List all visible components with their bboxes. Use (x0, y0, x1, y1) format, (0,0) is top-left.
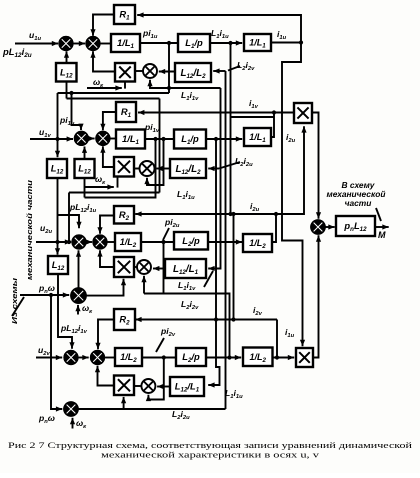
wire bus into L12a row2 (55, 93, 60, 157)
block 1/L2 right (row4) (243, 348, 273, 367)
wire L12b up to A2 (82, 147, 87, 160)
wire L12b down (84, 178, 86, 198)
wire i2u to R2 and XR1 (135, 126, 306, 214)
wire L1/p to 1/L1 right row2 (206, 136, 242, 141)
wire M2 to X2 (134, 168, 140, 170)
wire M1 to X1 (135, 70, 143, 72)
wire stub B4 to i1v riser (231, 116, 275, 118)
summing junction B2 (96, 132, 110, 146)
wire W2 bridge (67, 98, 160, 100)
svg-text:механической части: механической части (25, 180, 34, 280)
wire 1/L1 to L1/p row1 (140, 41, 178, 45)
summing junction A1 (59, 37, 73, 51)
bus B1 into L12/L1 row4 (208, 139, 219, 388)
bus B4 vertical (228, 43, 232, 216)
wire L2/p to 1/L2 right row4 (206, 355, 241, 360)
wire R1 out to B2 (100, 112, 116, 130)
speed summing circle row4 (64, 402, 78, 416)
wire 1/L2 to L2/p row3 (141, 240, 174, 244)
wire L1/p to 1/L1 right row1 (210, 40, 242, 45)
bus B3 stub into L12/L2 row1 (213, 68, 225, 73)
wire y192 bridge (69, 192, 160, 194)
summing junction A3 (72, 235, 86, 249)
wire W2 right leg down (159, 99, 161, 193)
wire y192 left leg down (68, 193, 70, 243)
wire u2u input (36, 239, 71, 244)
wire into M1 bottom and cross link (147, 80, 220, 90)
block 1/L2 (row4) (115, 348, 142, 366)
svg-text:Из схемы: Из схемы (10, 277, 19, 324)
leader mechanical part (376, 208, 381, 221)
wire W2 up into L12 row1 (66, 82, 68, 99)
wire 1/L1 to L1/p row2 (145, 137, 174, 141)
block L12 a (row2) (47, 159, 67, 178)
wire pickup into M4 (146, 358, 164, 402)
wire i2v up leg (276, 320, 278, 358)
svg-text:M: M (378, 230, 386, 240)
summing junction A4 (64, 351, 78, 365)
wire sum to pnL12 (325, 224, 335, 229)
arrow into R2 row3 (135, 211, 141, 216)
wire omega_k up row3 (75, 305, 80, 315)
wire bus L12row2a to L12 row3 (55, 178, 60, 255)
wire u2v input (36, 355, 62, 360)
bus B3 long vertical (225, 71, 227, 409)
wire y319 R2 and i2v (135, 319, 277, 321)
bus B2 into L12/L1 row3 (208, 88, 220, 271)
wire feedback to R1 row1 (137, 12, 303, 44)
wire A3 to B3 (86, 239, 93, 244)
product node M2 (140, 161, 155, 176)
block 1/L2 right (row3) (243, 234, 272, 252)
wire pn omega row3 (20, 292, 69, 297)
wire pL12i1v into A4 top (58, 274, 75, 349)
wire A2 to B2 (88, 136, 95, 141)
feedback gain R1 (row1) (114, 5, 135, 24)
summing junction A2 (75, 132, 89, 146)
product node M3 (137, 260, 151, 274)
leader pn omega (12, 297, 24, 316)
multiplier X (row1) (115, 63, 135, 82)
block 1/L2 (row3) (115, 233, 141, 251)
wire XR1 down to torque sum (312, 113, 321, 219)
wire pickup horizontal row3 and drop (144, 294, 232, 360)
wire X3 out to B3 bottom (97, 250, 114, 267)
wire L12/L2 out to M1 (159, 69, 175, 74)
wire A1 to B1 (72, 41, 85, 46)
wire speed line row4 extended (78, 408, 226, 410)
product node M1 (143, 64, 157, 78)
wire u1u input (15, 41, 58, 46)
wire omega_k up row4 (70, 418, 75, 429)
wire i2v into XR2 (273, 355, 295, 360)
stub into L12/L2 row2 (208, 166, 219, 171)
wire pickup into M2 (144, 139, 163, 185)
wire speed to X3 bottom (86, 279, 126, 296)
current multiplier XR1 (294, 103, 312, 123)
leader L2 i2v (228, 66, 240, 71)
wire B4 to 1/L2 row4 (104, 357, 115, 359)
block L1/p (row2) (174, 130, 206, 149)
wire pn omega branch to row4 (51, 295, 62, 412)
block 1/L1 right (row1) (244, 34, 271, 51)
svg-text:механической характеристики в: механической характеристики в осях u, v (101, 450, 320, 460)
wire A4 to B4 (78, 355, 89, 360)
wire omega_k row2 (84, 184, 114, 189)
block L2/p (row3) (174, 232, 208, 250)
summing junction B1 (86, 37, 100, 51)
wire L12/L2 out to M2 (156, 166, 170, 171)
wire L12/L1 out to M3 (153, 266, 165, 271)
wire second bridge row2 (85, 137, 158, 198)
wire R2 out to B3 (97, 216, 114, 234)
wire i1v feedback line (138, 110, 294, 114)
leader pi2u (163, 228, 169, 240)
block pn L12 (336, 216, 375, 236)
torque summing junction (311, 220, 325, 234)
wire u1v input (30, 136, 73, 141)
wire L12/L1 out to M4 (157, 384, 170, 389)
block L12/L2 (row1) (175, 63, 211, 82)
wire pickup down row1 (168, 43, 170, 93)
summing junction B4 (91, 351, 105, 365)
block L12 b (row2) (75, 159, 95, 178)
arrow into R1 row2 (138, 110, 144, 115)
wire i1v up from right box row2 (271, 113, 274, 138)
multiplier X (row4) (114, 376, 134, 396)
block 1/L1 (row2) (116, 130, 145, 149)
multiplier X (row2) (114, 157, 134, 177)
leader L2 i2u (219, 162, 240, 169)
wire i1u long path to XR2 (282, 43, 305, 347)
multiplier X (row3) (114, 257, 134, 277)
wire M4 to X4 (134, 385, 141, 387)
block 1/L1 (row1) (111, 34, 140, 52)
wire into M3 bottom (141, 276, 146, 294)
block L2/p (row4) (176, 348, 206, 366)
bus B6 short vertical (231, 212, 235, 322)
speed summing circle row3 (71, 288, 86, 303)
block 1/L1 right (row2) (244, 128, 271, 146)
block L12 (row1) (56, 63, 77, 82)
leader L1 i1v (204, 271, 213, 287)
block L12 (row3) (48, 256, 68, 274)
current multiplier XR2 (296, 348, 313, 367)
wire XR2 up to torque sum (313, 235, 321, 357)
feedback gain R1 (row2) (116, 102, 136, 122)
arrow into R2 row4 (135, 317, 141, 322)
wire pickup down row3 (163, 242, 165, 294)
wire pL12i1u into A3 top (58, 215, 82, 228)
wire i2u up (272, 212, 278, 242)
wire L2/p to 1/L2 right row3 (208, 239, 242, 244)
wire R1 out to B1 (90, 15, 114, 36)
feedback gain R2 (row4) (114, 309, 135, 330)
feedback gain R2 (row3) (114, 206, 134, 224)
wire speed riser to X4 bottom (121, 397, 126, 409)
svg-text:Рис 2 7 Структурная схема, с: Рис 2 7 Структурная схема, соответствующ… (8, 440, 413, 450)
wire pi1u down into A2 (72, 93, 84, 130)
block L1/p (row1) (178, 34, 210, 52)
wire B3 to 1/L2 (107, 241, 116, 243)
product node M4 (141, 379, 155, 393)
wire X4 out to B4 bottom (95, 366, 114, 386)
summing junction B3 (93, 235, 107, 249)
svg-text:части: части (345, 198, 372, 208)
wire speed node up to A3 (76, 250, 81, 288)
wire L12 up to A1 (64, 51, 69, 63)
wire M3 to X3 (134, 266, 137, 268)
wire 1/L2 to L2/p row4 (142, 355, 176, 359)
wire omega_k up into X2 (117, 177, 119, 188)
block L12/L2 (row2) (170, 159, 206, 178)
wire B1 to 1/L1 (99, 43, 111, 45)
wire R2 out to B4 (95, 320, 114, 350)
wire X1 out to B1 bottom (90, 51, 115, 71)
leader pi2v (156, 338, 164, 352)
wire B2 to 1/L1 row2 (110, 138, 117, 140)
wire omega_k up into X1 (124, 82, 126, 89)
block L12/L1 (row4) (170, 377, 204, 396)
wire i1u output row1 (271, 42, 301, 44)
wire W1 bridge (58, 91, 170, 95)
block L12/L1 (row3) (165, 259, 206, 278)
wire X2 out to B2 bottom (100, 146, 114, 167)
wire omega_k row1 (87, 85, 122, 90)
wire M output (375, 224, 389, 229)
